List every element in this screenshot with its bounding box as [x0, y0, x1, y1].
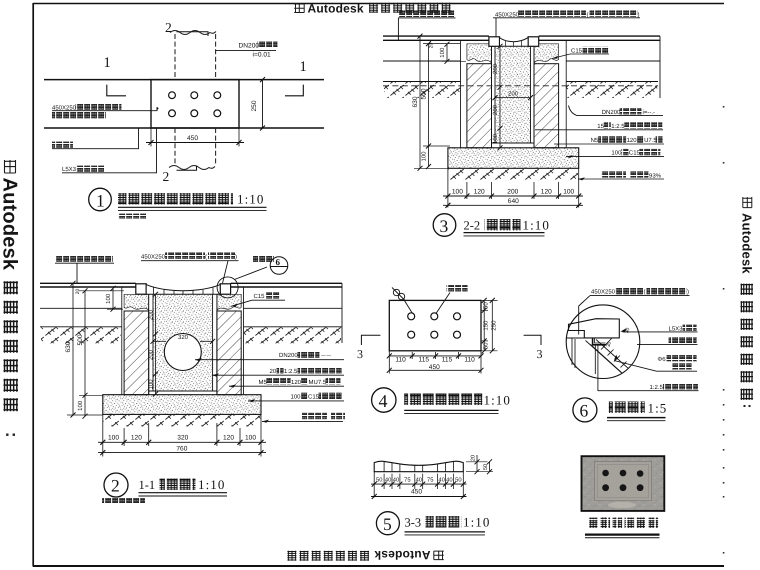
d3 left dim 630: [412, 34, 448, 171]
svg-text:1: 1: [96, 191, 105, 211]
svg-text:40: 40: [385, 477, 391, 484]
d4 label weep hole: [436, 285, 468, 314]
svg-text:320: 320: [178, 334, 189, 341]
d4 grate holes: [408, 313, 461, 338]
svg-text:(: (: [644, 289, 646, 296]
d3 bottom dim chain 100 120 200 120 100: [443, 168, 583, 208]
d2 base slab concrete: [103, 395, 261, 415]
svg-text:1:10: 1:10: [463, 515, 491, 530]
svg-text:250: 250: [251, 100, 258, 111]
d1 section mark 1 right: [285, 59, 307, 96]
svg-text:120: 120: [291, 379, 302, 386]
svg-text:20: 20: [429, 43, 435, 49]
border frame right dotted remnants: [723, 106, 725, 554]
svg-text:3: 3: [440, 216, 449, 236]
d4 title text stone grate 1:10: [404, 393, 511, 414]
d2 title text 1-1 section 1:10: [102, 477, 227, 503]
svg-text:L5X3: L5X3: [669, 325, 684, 332]
d2 channel mortar core stipple: [153, 294, 213, 391]
d1 drain pipe hidden above (dashed): [170, 31, 216, 80]
d3 channel depth dim chain: [492, 44, 503, 151]
d3 title circle 3: [433, 214, 456, 237]
d2 label 20 thick 1:2.5 waterproof mortar: [212, 367, 344, 377]
d2 label resin grate top left: [55, 255, 114, 283]
svg-text:3: 3: [537, 347, 543, 361]
svg-text:110: 110: [395, 357, 406, 364]
d1 label 450X250 stone grate: [52, 104, 159, 119]
svg-text:760: 760: [176, 445, 187, 452]
svg-text:M5: M5: [259, 379, 268, 386]
d1 label DN200 drain pipe i=0.01: [216, 42, 278, 59]
svg-text:100: 100: [611, 150, 622, 157]
d5 grate bar section: [374, 461, 463, 472]
d2 soil hatch under base: [103, 415, 260, 427]
d3 left dim 500/100: [421, 41, 461, 169]
d1 pavement bottom edge: [44, 127, 324, 129]
svg-text:1: 1: [104, 55, 111, 71]
svg-text:C15: C15: [308, 394, 320, 401]
svg-text:6: 6: [276, 257, 281, 267]
d3 label 15 thick 1:2.5 mortar finish: [535, 122, 663, 130]
svg-text:50: 50: [376, 477, 382, 484]
svg-text:(: (: [587, 11, 589, 18]
svg-text:--·--: --·--: [321, 353, 331, 359]
d4 chamfer marker top-left: [392, 288, 413, 314]
d3 channel mortar core stipple: [495, 46, 531, 143]
svg-text:120: 120: [541, 189, 552, 196]
svg-text:5: 5: [383, 514, 392, 534]
svg-text:93%: 93%: [649, 172, 662, 179]
svg-text:Autodesk: Autodesk: [374, 548, 430, 562]
svg-text:450: 450: [187, 135, 198, 142]
svg-text:Autodesk: Autodesk: [740, 213, 755, 274]
d3 label 100 thick C15 concrete: [566, 149, 664, 158]
svg-text:100: 100: [563, 189, 574, 196]
svg-text:50: 50: [455, 477, 461, 484]
border frame bottom line: [33, 565, 724, 567]
svg-text:200: 200: [492, 104, 499, 115]
d2 pipe width dim 320: [151, 334, 216, 344]
svg-text:DN200: DN200: [602, 109, 621, 116]
watermark top: Autodesk educational product: [294, 1, 450, 15]
d3 label C15 plain concrete: [552, 47, 609, 59]
d1 section mark 1 left: [104, 55, 127, 96]
svg-text:DN200: DN200: [239, 43, 260, 50]
svg-text:MU7.5: MU7.5: [309, 379, 327, 386]
d2 channel lining lines: [149, 294, 217, 394]
d4 grate slab rectangle: [389, 300, 481, 350]
svg-text:120: 120: [627, 137, 638, 144]
svg-text:100: 100: [439, 47, 446, 58]
svg-text:40: 40: [393, 477, 399, 484]
d2 pavement surface double line: [40, 283, 342, 287]
d1 drain pipe hidden below (dashed): [169, 128, 216, 170]
svg-text:75: 75: [404, 478, 410, 484]
d1 title text: [118, 192, 267, 219]
d6 label L5X3 angle steel: [623, 325, 698, 333]
svg-text:Autodesk: Autodesk: [0, 178, 21, 271]
d2 collar depth dim 100: [105, 286, 123, 312]
d1 dim 450: [146, 128, 244, 147]
d3 label paving material per paving plan (top left): [398, 10, 456, 40]
svg-text:320: 320: [177, 435, 188, 442]
svg-text:N5: N5: [591, 137, 599, 144]
d4 section mark 3 right: [524, 335, 543, 361]
d3 soil hatch under base: [449, 169, 579, 181]
d1 label paving joint: [52, 128, 139, 149]
svg-text:C15: C15: [629, 150, 641, 157]
svg-text:100: 100: [148, 379, 155, 390]
svg-text:50: 50: [483, 464, 489, 470]
svg-text:630: 630: [65, 341, 72, 352]
d4 bottom dim 110 115 115 110 / 450: [387, 351, 484, 374]
svg-text:40: 40: [438, 477, 444, 484]
svg-text:40: 40: [416, 477, 422, 484]
svg-text:630: 630: [412, 96, 419, 107]
d2 subgrade line + soil hatch band: [40, 283, 342, 343]
d2 pipe circle DN200: [164, 334, 201, 371]
d6 grate slab section: [567, 319, 620, 338]
d2 concrete collar right: [217, 294, 241, 310]
svg-text:C15: C15: [254, 293, 266, 300]
d3 subgrade line + soil hatch band: [383, 36, 660, 98]
d6 small rotated dims 30: [606, 327, 632, 360]
svg-text:): ): [235, 253, 237, 260]
d6 label waterproof coating: [637, 337, 698, 344]
svg-text:200: 200: [148, 349, 155, 360]
svg-text:1:2.5: 1:2.5: [611, 123, 625, 130]
svg-text:6: 6: [580, 401, 589, 421]
svg-text:(: (: [205, 253, 207, 260]
d2 pavement base line: [40, 307, 342, 309]
d3 hidden pipe dashed line: [383, 85, 658, 87]
svg-text:75: 75: [427, 478, 433, 484]
svg-text:100: 100: [492, 133, 499, 144]
d3 channel width dim 200: [493, 90, 534, 100]
svg-text:50: 50: [482, 342, 489, 349]
d6 label 450X250 stone grate top: [579, 288, 690, 335]
svg-text:120: 120: [474, 189, 485, 196]
svg-text:200: 200: [507, 189, 518, 196]
d3 pavement surface double line: [383, 36, 660, 40]
d1 section mark 2 bottom: [163, 166, 197, 185]
d3 right wall brick hatch: [534, 64, 559, 148]
svg-text:1:10: 1:10: [198, 477, 226, 492]
svg-text:L5X3: L5X3: [62, 166, 77, 173]
svg-text:100: 100: [105, 293, 112, 304]
svg-text:1:2.5: 1:2.5: [650, 384, 664, 391]
watermark bottom (rotated 180): [287, 548, 443, 562]
svg-text:15: 15: [597, 123, 604, 130]
d6 title text detail 1:5: [607, 400, 667, 420]
d3 label M5 mortar MU7.5 brick: [554, 136, 664, 144]
svg-text:4: 4: [379, 391, 388, 411]
d6 detail circle: [566, 305, 640, 379]
svg-text:50: 50: [482, 302, 489, 309]
svg-text:120: 120: [131, 435, 142, 442]
svg-text:115: 115: [442, 357, 453, 364]
svg-text:250: 250: [490, 320, 497, 331]
svg-text:450: 450: [411, 489, 422, 496]
d2 label 450X250 stainless grate (top): [141, 252, 239, 283]
watermark right edge (rotated 90): [740, 197, 755, 407]
svg-text:20: 20: [471, 455, 477, 461]
d2 title circle 2: [104, 473, 128, 497]
svg-text:U7.5: U7.5: [644, 137, 657, 144]
svg-text:115: 115: [419, 357, 430, 364]
svg-text:450X250: 450X250: [141, 253, 166, 260]
d3 excavation boundary lines: [461, 40, 567, 148]
svg-text:40: 40: [446, 477, 452, 484]
svg-text:450X250: 450X250: [591, 289, 616, 296]
svg-text:2: 2: [165, 20, 172, 35]
photo caption rain inlet schematic: [585, 518, 660, 538]
d3 base slab concrete: [448, 148, 579, 169]
d3 left wall brick hatch: [467, 64, 492, 148]
d2 label compacted subgrade 95%: [262, 413, 345, 423]
watermark left edge (rotated 90): [0, 160, 21, 436]
border frame top line: [33, 3, 724, 5]
d3 collar depth dim 100: [439, 42, 466, 64]
svg-text:100: 100: [291, 394, 302, 401]
svg-text:120: 120: [223, 435, 234, 442]
svg-text:1:2.5: 1:2.5: [284, 368, 298, 375]
d3 label DN200 drain pipe: [569, 106, 664, 116]
svg-text:100: 100: [77, 400, 84, 411]
d1 pavement top edge: [44, 79, 324, 81]
d2 left dim 630: [65, 281, 103, 418]
d2 left dim 500/100: [75, 288, 124, 418]
svg-text:200: 200: [508, 90, 519, 97]
d2 label C15 bedding: [231, 292, 285, 306]
d3 pavement base line: [383, 60, 660, 62]
d1 label L5X3 angle steel: [62, 128, 157, 173]
d1 title circle 1: [89, 188, 112, 211]
svg-text:100: 100: [421, 151, 428, 162]
d2 concrete collar left: [124, 294, 149, 310]
svg-text:3-3: 3-3: [405, 516, 422, 530]
d5 right dims 20/50: [466, 455, 493, 474]
d4 title circle 4: [372, 388, 396, 412]
svg-text:640: 640: [508, 198, 519, 205]
d1 grate rectangle: [151, 80, 239, 128]
svg-text:DN200: DN200: [279, 352, 298, 359]
d2 label M5 mortar 120 MU7.5 brick: [229, 378, 344, 388]
svg-text:Autodesk: Autodesk: [308, 1, 364, 15]
d2 detail callout bubble: [217, 256, 288, 298]
d5 dim chain 50 40 40 75 40 75 40 40 50: [371, 472, 467, 499]
d4 right dim 50/150/50: [481, 298, 498, 353]
svg-text:150: 150: [482, 320, 489, 331]
svg-text:200: 200: [148, 309, 155, 320]
svg-text:450X250: 450X250: [495, 11, 520, 18]
d2 grate cross-section: [136, 284, 231, 294]
d2 left wall brick hatch: [124, 311, 149, 395]
svg-text:1-1: 1-1: [139, 478, 156, 492]
d3 label compacted subgrade 93%: [578, 171, 664, 180]
svg-text:200: 200: [492, 63, 499, 74]
d1 dim 250: [245, 77, 267, 130]
svg-text:500: 500: [421, 88, 428, 99]
d4 section mark 3 left: [357, 335, 380, 361]
svg-text:i=0.01: i=0.01: [253, 52, 271, 59]
svg-text:2: 2: [163, 169, 170, 184]
d3 label 450X250 stone grate (top): [493, 10, 640, 37]
svg-text:C15: C15: [571, 48, 583, 55]
d3 concrete collar left: [467, 44, 492, 63]
d2 label DN200 drain pipe: [195, 351, 344, 361]
d6 angle steel L5X3: [593, 338, 606, 345]
d2 channel depth dim chain: [148, 292, 159, 397]
svg-text:Φ6: Φ6: [658, 356, 667, 363]
svg-text:1:10: 1:10: [237, 192, 265, 207]
svg-text:1: 1: [300, 59, 307, 75]
svg-text:1:10: 1:10: [523, 218, 551, 233]
svg-text:450: 450: [429, 364, 440, 371]
svg-text:100: 100: [245, 435, 256, 442]
svg-text:20: 20: [270, 368, 277, 375]
d5 title text 3-3 section 1:10: [405, 515, 491, 535]
svg-text:20: 20: [75, 289, 81, 295]
d2 excavation boundary lines: [122, 288, 244, 395]
svg-text:500: 500: [77, 334, 84, 345]
d3 channel lining lines: [492, 46, 535, 148]
d6 label phi6 steel welded: [614, 355, 697, 371]
svg-text:2-2: 2-2: [464, 219, 481, 233]
d1 grate holes: [169, 92, 221, 117]
d3 grate cross-section: [489, 37, 539, 47]
svg-text:110: 110: [464, 357, 475, 364]
svg-text:100: 100: [108, 435, 119, 442]
svg-text:1:5: 1:5: [648, 400, 668, 415]
d6 label 1:2.5 waterproof mortar: [598, 383, 699, 391]
d6 wall lining verticals: [572, 339, 598, 392]
svg-text:100: 100: [452, 189, 463, 196]
d5 title circle 5: [376, 512, 399, 535]
d2 label 100 thick C15 concrete: [248, 393, 344, 403]
d3 title text 2-2 section 1:10: [464, 218, 551, 236]
svg-text:2: 2: [111, 476, 120, 496]
svg-text:3: 3: [357, 347, 363, 361]
border frame left line: [32, 3, 34, 567]
d2 bottom dim chain 100 120 320 120 100: [98, 414, 266, 456]
d1 section mark 2 top: [165, 20, 208, 36]
svg-text:): ): [638, 11, 640, 18]
photo of stone grate: [582, 456, 665, 511]
svg-text:1:10: 1:10: [484, 393, 512, 408]
d6 title circle 6: [573, 398, 597, 422]
d3 concrete collar right: [534, 44, 559, 63]
svg-text:): ): [687, 289, 689, 296]
d2 right wall brick hatch: [217, 311, 241, 395]
svg-text:i=--.-: i=--.-: [643, 109, 656, 116]
